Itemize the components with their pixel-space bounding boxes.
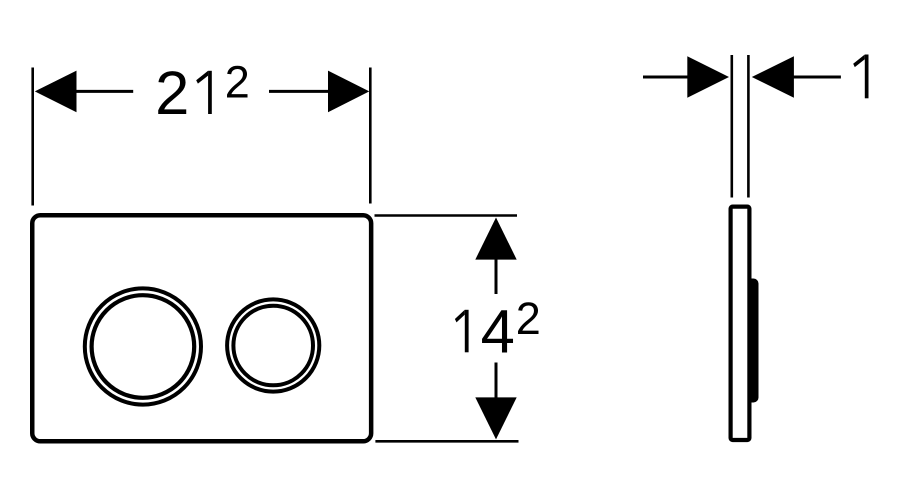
svg-text:2: 2 [225, 57, 250, 108]
svg-text:2: 2 [516, 293, 541, 344]
side view: plate profile [731, 207, 750, 440]
dim 14: top extension line [375, 214, 518, 217]
svg-text:2: 2 [155, 59, 189, 128]
front view: plate outline [32, 215, 371, 441]
dim 21: label digit 1 [196, 71, 212, 114]
big flush button outer ring [85, 288, 201, 404]
big flush button inner ring [92, 295, 195, 398]
dim 1: left line segment [643, 76, 688, 79]
dim 21: left arrow [35, 71, 77, 113]
svg-text:4: 4 [481, 297, 515, 366]
dim 14: bottom extension line [375, 440, 518, 443]
dim 21: right arrow [328, 71, 369, 113]
side view: button bulge [746, 279, 759, 403]
dim 1: right extension line [747, 55, 750, 198]
dim 14: lower line segment [495, 363, 498, 399]
small flush button outer ring [227, 299, 319, 391]
dim 1: right line segment [793, 76, 841, 79]
dim 21: right line segment [269, 90, 329, 93]
dim 14: label digit 1 [455, 310, 469, 353]
small flush button inner ring [233, 306, 313, 386]
dim 1: left-pointing arrow [752, 56, 794, 97]
dim 21: right extension line [369, 68, 372, 204]
dim 14: up arrow [475, 218, 516, 260]
dim 14: down arrow [475, 397, 516, 439]
dim 1: left extension line [730, 55, 733, 198]
dim 1: label 1 [853, 55, 868, 99]
dim 21: left extension line [31, 68, 34, 206]
dim 14: upper line segment [495, 259, 498, 295]
dim 21: left line segment [76, 90, 134, 93]
dim 1: right-pointing arrow [687, 56, 729, 97]
